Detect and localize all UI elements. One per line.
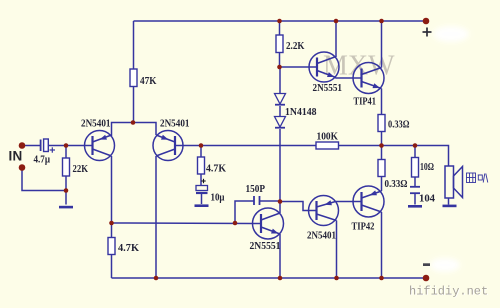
svg-text:47K: 47K [140, 76, 157, 87]
wire output node to R0.33 bottom [381, 146, 383, 160]
wire 22K stems [65, 146, 67, 159]
wire TIP41 collector to rail [381, 21, 383, 68]
wire 2.2K top stem [279, 21, 281, 35]
ground G2 under 10u [195, 204, 209, 207]
capacitor 104 [410, 187, 420, 193]
resistor 10 ohm [412, 158, 435, 178]
wire top positive rail [134, 20, 427, 22]
wire ground stem G2 [201, 194, 203, 204]
terminal input gnd [19, 164, 26, 171]
node junction dots [19, 18, 430, 282]
wire emitter bus of differential pair [112, 123, 157, 137]
svg-text:4.7K: 4.7K [206, 164, 227, 175]
node input cap to 22K [64, 143, 69, 148]
svg-text:2N5401: 2N5401 [307, 231, 336, 242]
svg-text:0.33Ω: 0.33Ω [385, 179, 408, 190]
wire 4.7K mid to 10u cap [200, 174, 202, 186]
wire 47K top stem [133, 21, 135, 69]
node rail Q2 [154, 276, 159, 281]
transistor Q1 2N5401 left input [85, 131, 115, 161]
plus sign V+ [423, 28, 432, 37]
svg-text:22K: 22K [73, 164, 89, 175]
transistor Q3 2N5551 bottom [253, 208, 284, 239]
svg-text:4.7K: 4.7K [118, 243, 140, 254]
wire 150P left branch [235, 201, 254, 223]
transistor Q4 2N5401 driver [309, 196, 339, 226]
node zobel [413, 143, 418, 148]
node rail Q3 [278, 276, 283, 281]
transistor Q2 2N5401 right input (mirrored) [153, 131, 183, 161]
white blob top [433, 26, 469, 42]
node 2.2K top [277, 19, 282, 24]
wire input to Q1 base [22, 145, 40, 147]
svg-text:10Ω: 10Ω [420, 162, 434, 173]
ground G3 under 104 [408, 205, 422, 208]
wire 47K bottom stem to emitter bus [133, 87, 135, 123]
svg-text:1N4148: 1N4148 [285, 107, 317, 118]
diode D1 1N4148 [275, 94, 286, 105]
svg-text:10μ: 10μ [211, 193, 225, 204]
wire cap C1 to Q1 base [48, 145, 84, 147]
svg-text:IN: IN [9, 149, 23, 164]
wire 4.7K left stems [111, 223, 113, 238]
transistor Q5 TIP41 [353, 63, 384, 94]
wire TIP42 collector to rail [381, 212, 383, 278]
node 47K emitter bus [131, 120, 136, 125]
terminal V+ [423, 18, 430, 25]
ground G4 under speaker [443, 205, 457, 208]
svg-text:2.2K: 2.2K [286, 41, 305, 52]
wire diode chain down to node [279, 129, 281, 202]
svg-text:hifidiy.net: hifidiy.net [409, 285, 488, 299]
transistor Q6 TIP42 [353, 186, 384, 217]
label speaker (la ba) [467, 173, 488, 183]
capacitor 150P [254, 196, 260, 205]
node output [379, 143, 384, 148]
svg-text:0.33Ω: 0.33Ω [388, 120, 410, 131]
terminal V- [423, 275, 430, 282]
node rail Q4 [334, 276, 339, 281]
node rail TIP42 [379, 276, 384, 281]
wire 22K bottom to ground node [65, 176, 67, 191]
svg-text:2N5551: 2N5551 [250, 241, 281, 252]
svg-text:TIP41: TIP41 [354, 97, 377, 108]
wire node to Q4 base jog [280, 202, 309, 211]
wire R0.33 bottom to TIP42 emitter [381, 177, 383, 192]
resistor 22K [63, 158, 89, 176]
wire speaker to ground G4 [448, 198, 450, 205]
wire ground stem G3 [414, 194, 416, 205]
svg-text:150P: 150P [246, 184, 266, 195]
node TIP41 collector top [379, 19, 384, 24]
wire 4.7K left to bottom rail [111, 255, 113, 279]
node 150P base [233, 221, 238, 226]
node Q0 base [277, 65, 282, 70]
wire 150P right to Q3 collector node [260, 200, 281, 202]
capacitor 10u [196, 179, 208, 193]
svg-text:100K: 100K [317, 132, 339, 143]
node Q0 collector top [334, 19, 339, 24]
wire between diodes [279, 106, 281, 117]
wire 4.7K mid stems [200, 146, 202, 158]
wire Q0 base lead [280, 66, 309, 68]
speaker LS1 [445, 166, 463, 198]
resistor 0.33 ohm bottom [378, 160, 408, 191]
svg-text:2N5401: 2N5401 [160, 119, 190, 130]
ground G1 input [59, 206, 73, 209]
node feedback 4.7K [199, 143, 204, 148]
wire input return [22, 168, 66, 191]
wire base bus to Q3 [112, 222, 254, 225]
terminal input hot [19, 142, 26, 149]
svg-text:4.7μ: 4.7μ [34, 155, 51, 166]
wire Q4 collector to rail [336, 221, 338, 279]
minus sign V- [423, 263, 430, 266]
wire 2.2K bottom to Q0 base node [279, 53, 281, 68]
wire diode chain top [279, 67, 281, 94]
resistor 4.7K left bottom [108, 238, 140, 255]
svg-text:TIP42: TIP42 [352, 222, 375, 233]
wire Q4 emitter to TIP42 base [336, 201, 354, 203]
svg-text:2N5551: 2N5551 [313, 83, 343, 94]
svg-text:2N5401: 2N5401 [81, 119, 111, 130]
white blob bottom [430, 258, 460, 272]
wire 10ohm to 104 cap [414, 177, 416, 186]
resistor 2.2K [276, 35, 305, 53]
wire bottom negative rail [112, 277, 427, 279]
wire TIP41 emitter to R 0.33 top [381, 89, 383, 115]
wire Q2 collector down [155, 156, 157, 278]
wire 10ohm stem [414, 146, 416, 158]
wire Q1 collector down [111, 156, 113, 223]
diode D2 1N4148 [275, 117, 286, 128]
node input ground [64, 188, 69, 193]
wire Q0 emitter to TIP41 base [336, 77, 354, 80]
resistor 0.33 ohm top [378, 115, 410, 132]
wire Q0 collector to rail [335, 21, 337, 57]
svg-text:104: 104 [419, 194, 436, 205]
wire Q2 base to feedback node [183, 145, 316, 147]
resistor 4.7K feedback [198, 157, 227, 175]
wire R0.33 top to output node [381, 132, 383, 146]
wire 100K to output node [339, 145, 416, 147]
transistor Q0 2N5551 VAS top [309, 52, 339, 82]
wire Q3 collector up [279, 202, 281, 214]
node Q3 collector [278, 199, 283, 204]
wire Q3 emitter to rail [279, 234, 281, 278]
wire output to speaker [415, 146, 449, 167]
capacitor 4.7u input [41, 139, 55, 153]
node Q1 collector bottom [109, 221, 114, 226]
resistor 47K [130, 69, 157, 87]
wire ground stem G1 [65, 191, 67, 205]
resistor 100K [316, 132, 339, 150]
